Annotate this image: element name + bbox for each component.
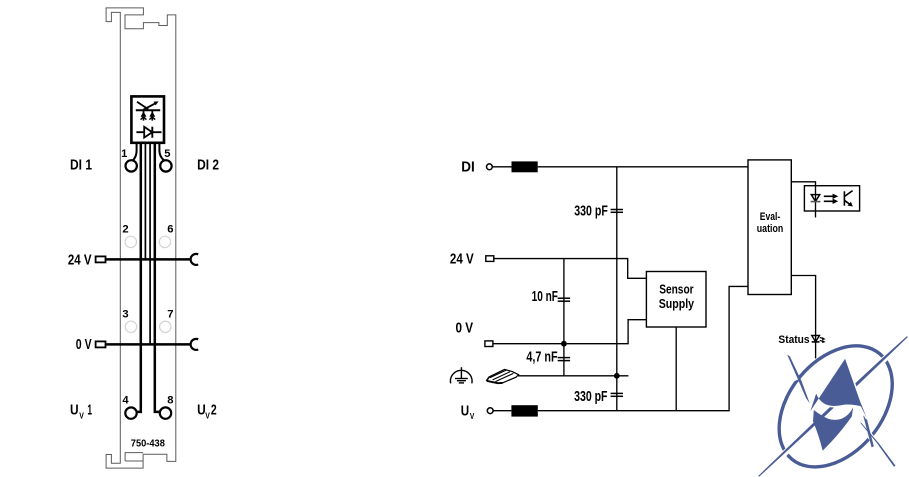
svg-text:Sensor: Sensor xyxy=(659,282,693,297)
ground earth symbol xyxy=(450,367,472,383)
pin 8 xyxy=(160,407,171,418)
terminal Uv xyxy=(487,408,493,414)
wire earth line xyxy=(518,375,628,377)
terminal 0V xyxy=(485,341,493,347)
logo ring gap bands xyxy=(772,441,798,465)
diode symbol xyxy=(136,127,161,138)
LED pair symbol xyxy=(136,101,160,120)
wire evaluation to optocoupler xyxy=(791,182,815,218)
svg-text:uation: uation xyxy=(757,223,784,235)
0V power jumper rail xyxy=(96,341,106,347)
svg-text:DI 2: DI 2 xyxy=(197,157,219,173)
junction dot 0V/10nF xyxy=(561,341,567,347)
logo needle lower segment xyxy=(860,423,896,467)
wire Uv to filter xyxy=(493,410,511,412)
svg-text:V: V xyxy=(79,410,84,420)
svg-text:0 V: 0 V xyxy=(456,320,474,336)
capacitor 10 nF xyxy=(558,298,570,301)
logo main diagonal xyxy=(758,336,908,477)
label Uv 1 xyxy=(70,402,92,421)
svg-text:Status: Status xyxy=(778,334,809,346)
svg-text:DI 1: DI 1 xyxy=(70,157,92,173)
wire sensor supply to Uv line xyxy=(675,327,677,411)
wire lead to pin 8 xyxy=(155,142,160,412)
junction dot earth/330pF xyxy=(614,373,620,379)
svg-text:2: 2 xyxy=(211,402,217,419)
terminal DI xyxy=(487,164,493,170)
terminal 24V xyxy=(486,256,494,262)
logo sail xyxy=(810,359,866,418)
filter DI xyxy=(512,161,538,172)
wire 0V to sensor supply xyxy=(493,320,647,344)
capacitor 4,7 nF xyxy=(558,358,570,361)
capacitor 330 pF lower xyxy=(611,393,623,396)
label Uv xyxy=(461,403,475,421)
pin 1 xyxy=(126,160,137,171)
pin 6 contact xyxy=(159,236,170,247)
box sensor supply xyxy=(646,272,706,328)
optocoupler phototransistor xyxy=(844,191,852,206)
wire DI to filter xyxy=(492,166,511,168)
svg-text:10 nF: 10 nF xyxy=(532,289,558,305)
wire DI to evaluation xyxy=(538,166,748,168)
svg-text:DI: DI xyxy=(461,160,475,176)
filter Uv xyxy=(511,405,537,416)
optocoupler box xyxy=(804,186,859,211)
wire evaluation to status LED xyxy=(791,276,815,359)
wire lead to pin 4 xyxy=(137,142,141,412)
module foot tab xyxy=(125,453,143,461)
svg-text:Eval-: Eval- xyxy=(760,211,781,223)
logo ring xyxy=(756,324,909,477)
optocoupler light arrows xyxy=(824,196,834,201)
wire lead to pin 5 xyxy=(159,142,164,160)
24V power jumper rail xyxy=(96,256,106,262)
svg-text:0 V: 0 V xyxy=(76,336,92,353)
svg-text:24 V: 24 V xyxy=(450,252,474,268)
status LED xyxy=(812,336,820,342)
optocoupler LED xyxy=(811,195,821,202)
svg-text:24 V: 24 V xyxy=(68,251,92,268)
logo needle upper wedge xyxy=(787,355,810,404)
box evaluation xyxy=(748,160,791,295)
capacitor 330 pF upper xyxy=(611,210,623,213)
svg-text:4,7 nF: 4,7 nF xyxy=(526,350,557,366)
logo check shape xyxy=(813,407,853,451)
input LED block xyxy=(131,96,164,142)
svg-text:3: 3 xyxy=(122,308,128,320)
logo sail tail extension xyxy=(863,414,874,447)
svg-text:V: V xyxy=(205,410,210,420)
svg-text:1: 1 xyxy=(121,148,127,160)
svg-text:5: 5 xyxy=(164,148,170,160)
svg-text:7: 7 xyxy=(167,308,173,320)
pin 5 xyxy=(160,160,171,171)
svg-text:U: U xyxy=(461,403,469,419)
svg-text:V: V xyxy=(470,411,475,421)
pin 7 contact xyxy=(160,321,171,332)
status LED light arrows xyxy=(820,338,824,342)
svg-text:330 pF: 330 pF xyxy=(574,389,608,405)
svg-text:U: U xyxy=(70,402,79,419)
wire 330pF net vertical xyxy=(616,167,618,411)
DIN rail clamp icon xyxy=(487,369,519,383)
wire 24V to sensor supply xyxy=(494,259,646,279)
label Uv 2 xyxy=(197,402,217,421)
wire lead to 0V rail xyxy=(149,142,151,344)
wire lead to 24V rail xyxy=(144,142,146,259)
svg-text:330 pF: 330 pF xyxy=(574,204,608,220)
svg-text:1: 1 xyxy=(87,402,92,419)
svg-text:Supply: Supply xyxy=(659,296,695,311)
svg-text:8: 8 xyxy=(167,394,173,406)
pin 3 contact xyxy=(125,321,136,332)
wire lead to pin 1 xyxy=(133,142,137,160)
svg-text:2: 2 xyxy=(122,223,128,235)
pin 2 contact xyxy=(125,236,136,247)
svg-text:6: 6 xyxy=(167,223,173,235)
wire Uv line xyxy=(538,286,748,410)
wire 10nF net vertical xyxy=(563,259,565,376)
svg-text:4: 4 xyxy=(122,394,129,406)
svg-text:750-438: 750-438 xyxy=(131,438,166,449)
module outline xyxy=(106,8,176,468)
pin 4 xyxy=(125,407,136,418)
